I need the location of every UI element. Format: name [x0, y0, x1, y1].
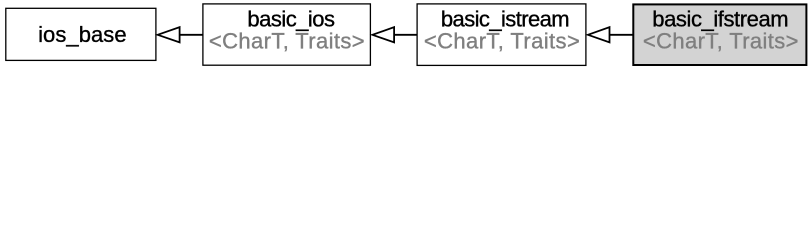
inheritance arrow basic_istream -> basic_ios [372, 27, 394, 42]
class box ios_base [6, 8, 156, 60]
class inheritance diagram: ios_base <- basic_ios <- basic_istream <- basic_ifstream [0, 0, 812, 69]
class box basic_istream [417, 4, 586, 66]
svg-text:ios_base: ios_base [38, 22, 127, 47]
wire arrow3 shaft [610, 34, 633, 36]
svg-text:<CharT, Traits>: <CharT, Traits> [643, 28, 799, 53]
inheritance arrow basic_ifstream -> basic_istream [588, 27, 610, 42]
svg-text:<CharT, Traits>: <CharT, Traits> [424, 28, 580, 53]
svg-text:<CharT, Traits>: <CharT, Traits> [209, 28, 365, 53]
class box basic_ios [203, 4, 371, 65]
wire arrow1 shaft [180, 34, 203, 36]
inheritance arrow basic_ios -> ios_base [158, 27, 180, 42]
wire arrow2 shaft [394, 34, 417, 36]
class box basic_ifstream (current class, highlighted) [633, 4, 806, 65]
